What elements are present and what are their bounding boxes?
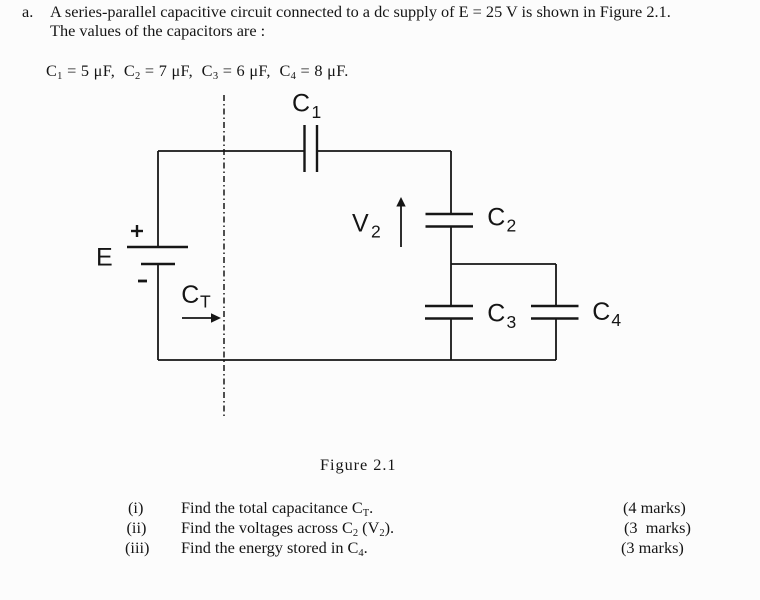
svg-text:2: 2 bbox=[371, 222, 381, 242]
svg-text:1: 1 bbox=[312, 102, 322, 122]
svg-text:C: C bbox=[487, 203, 505, 231]
svg-text:2: 2 bbox=[507, 216, 517, 236]
svg-text:C: C bbox=[292, 90, 310, 118]
svg-text:C: C bbox=[181, 281, 199, 309]
svg-text:C: C bbox=[487, 300, 505, 328]
svg-text:V: V bbox=[352, 210, 369, 238]
svg-text:E: E bbox=[96, 243, 113, 271]
svg-text:3: 3 bbox=[507, 312, 517, 332]
svg-text:C: C bbox=[592, 298, 610, 326]
svg-text:4: 4 bbox=[611, 310, 621, 330]
svg-text:T: T bbox=[200, 291, 211, 311]
